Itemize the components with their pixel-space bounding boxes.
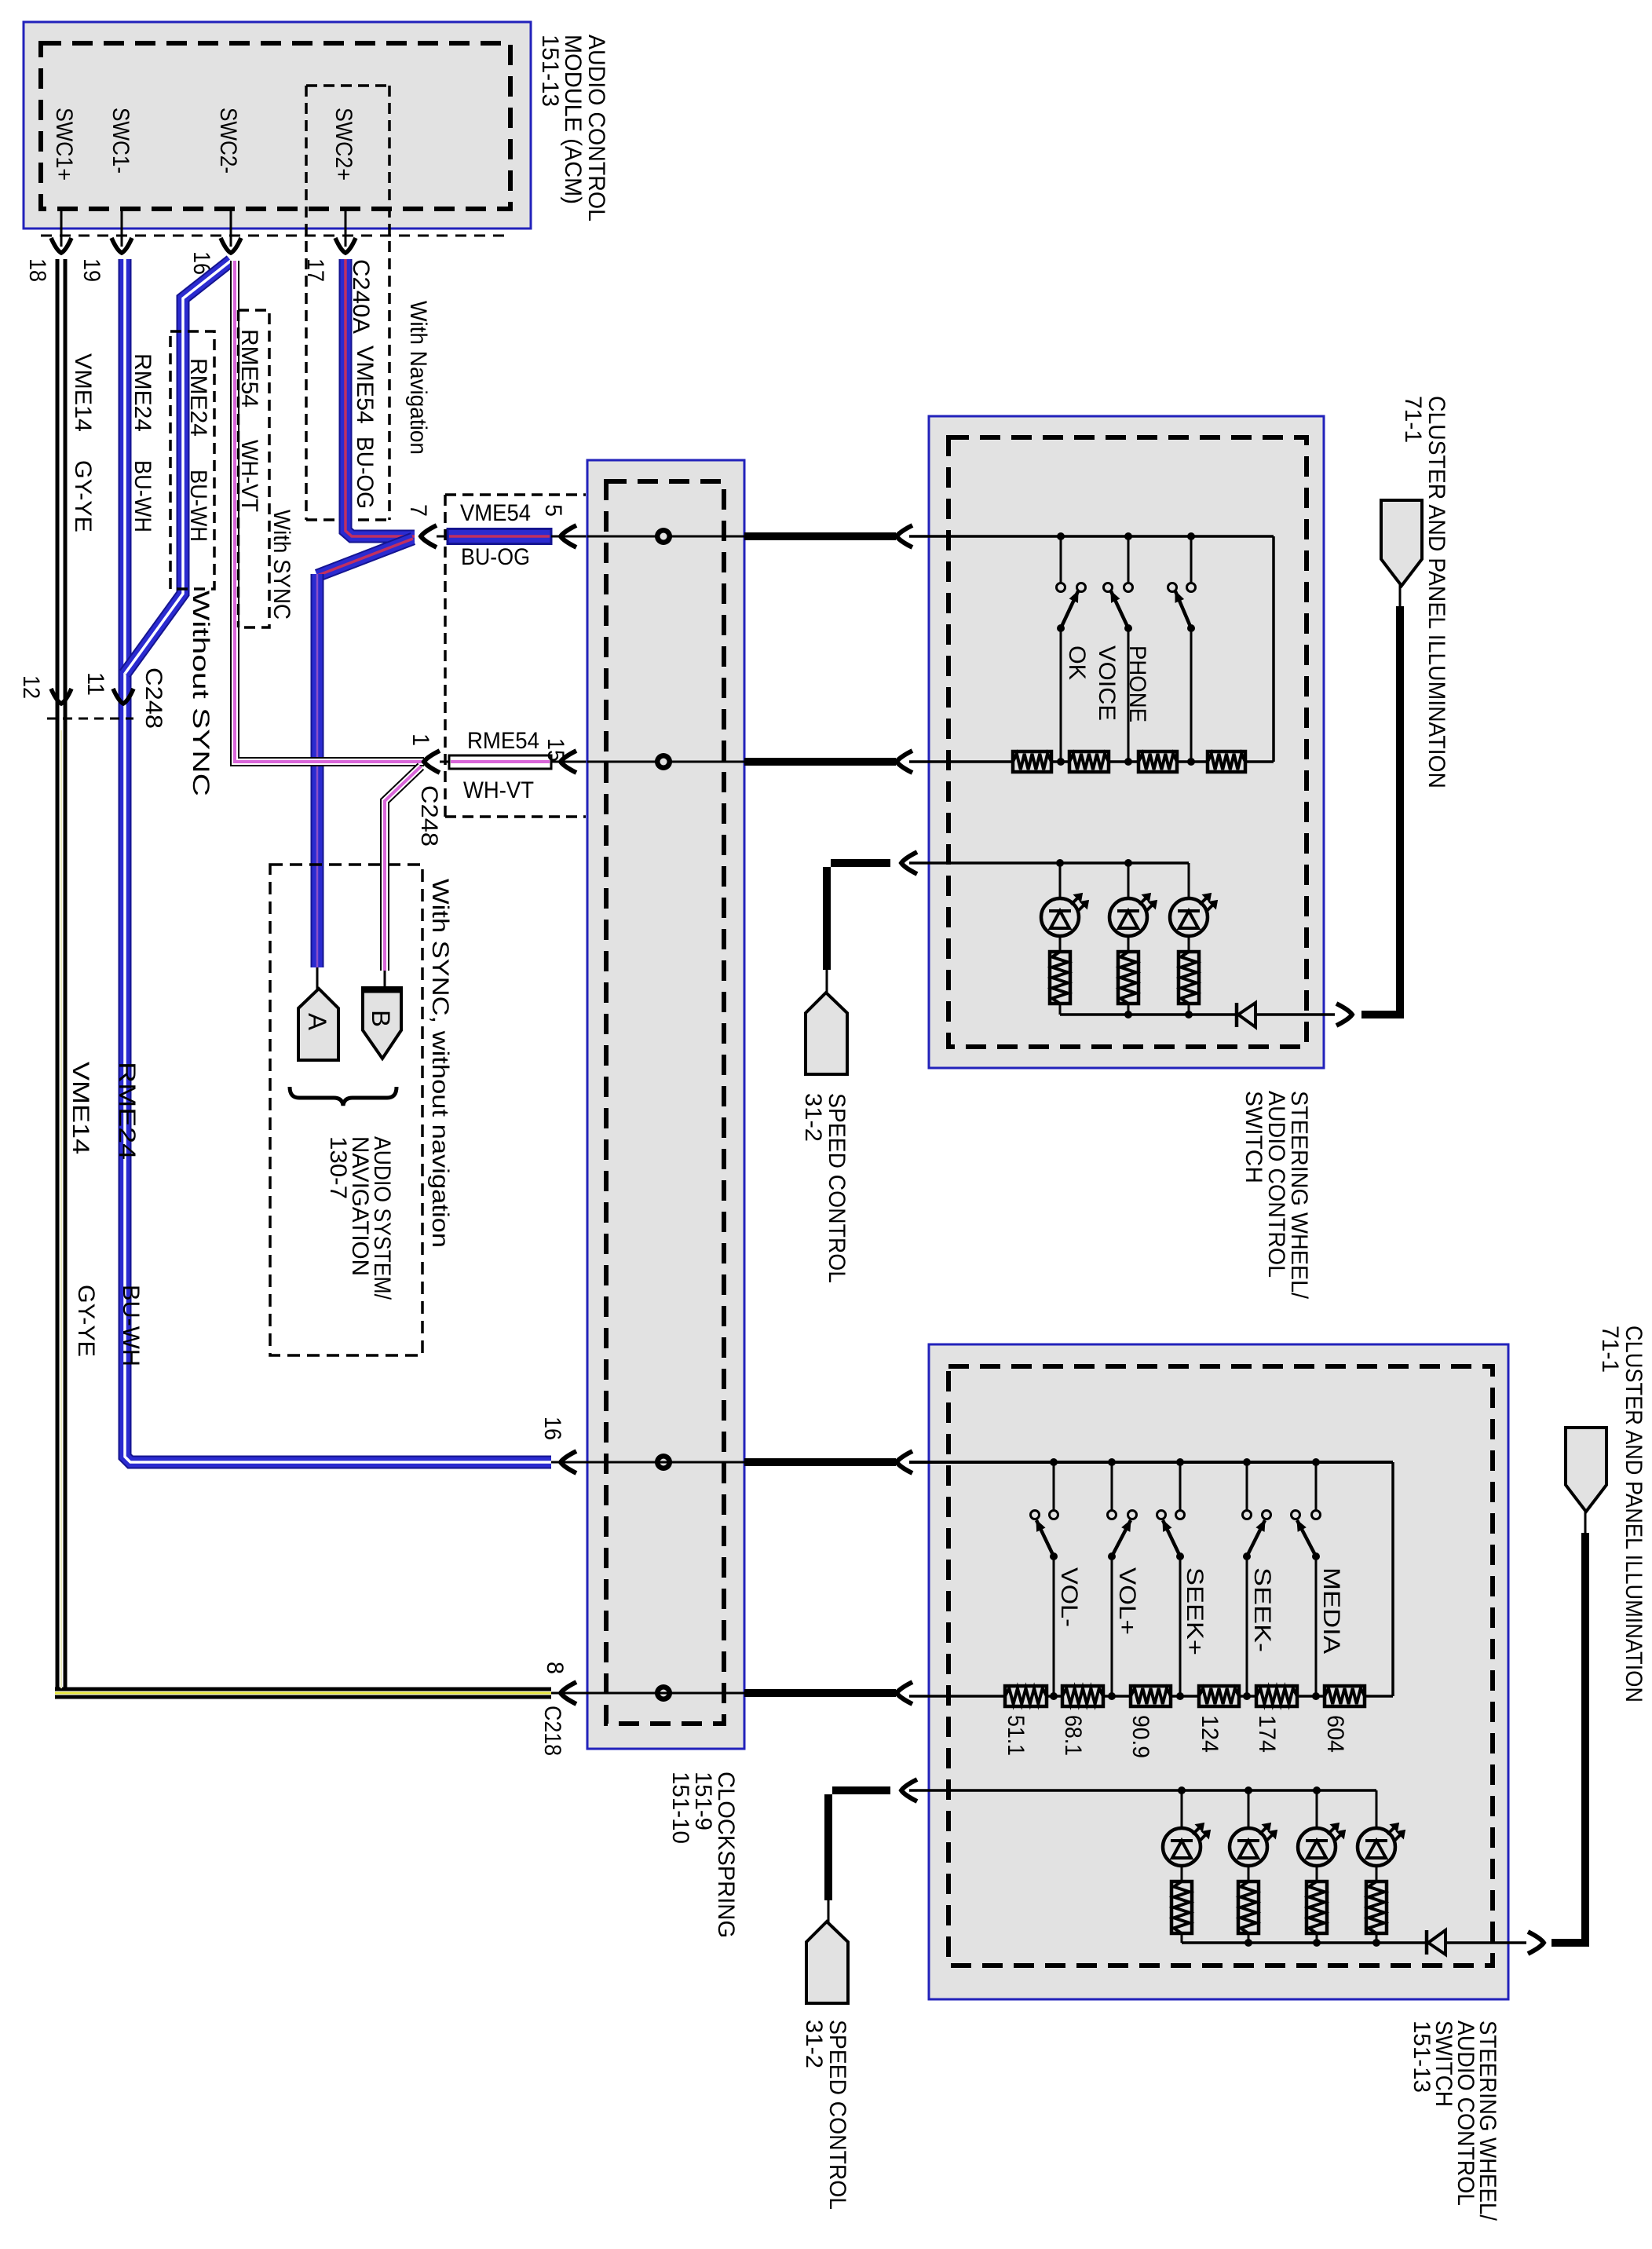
- resistor LED R4 bottom box: [1366, 1881, 1387, 1933]
- svg-text:OK: OK: [1064, 645, 1090, 680]
- connector A (to audio system): [298, 989, 338, 1060]
- wire pin5 inside clockspring: [587, 536, 744, 538]
- wire lead to connector B: [384, 971, 386, 991]
- wire thick to cluster illumination (top): [1361, 1011, 1404, 1018]
- svg-text:BU-WH: BU-WH: [130, 460, 155, 532]
- dashed option box With Navigation (around SWC2+): [306, 84, 389, 87]
- svg-text:CLUSTER AND PANEL ILLUMINATION: CLUSTER AND PANEL ILLUMINATION: [1621, 1326, 1647, 1702]
- svg-text:151-13: 151-13: [1409, 2020, 1435, 2093]
- wire stub junction7 to VME54 bar: [437, 536, 449, 538]
- wire RME24 BU-WH from pin 19 through C248 pin 11 to clockspring pin 16: [125, 259, 551, 1462]
- svg-text:GY-YE: GY-YE: [73, 1285, 99, 1357]
- svg-text:31-2: 31-2: [801, 2020, 827, 2068]
- svg-text:SWC1+: SWC1+: [51, 108, 77, 181]
- ACM pin lead x=440: [345, 209, 347, 247]
- wire pin8 into clockspring: [551, 1692, 744, 1695]
- switch PHONE: [1190, 536, 1193, 583]
- resistor R3 top box: [1138, 751, 1177, 772]
- dashed option box Without SYNC: [170, 331, 214, 589]
- LED D3 bottom box: [1316, 1790, 1318, 1828]
- switch VOL-: [1053, 1462, 1055, 1510]
- wire top box supply rail y=683: [909, 535, 1274, 538]
- dashed With SYNC box left edge over wire: [237, 310, 240, 627]
- wire pin16 into clockspring: [551, 1461, 744, 1464]
- switch SEEK-: [1246, 1462, 1248, 1510]
- svg-text:12: 12: [18, 675, 44, 699]
- svg-text:C248: C248: [416, 785, 442, 847]
- dashed region bars With Navigation: [444, 495, 447, 817]
- svg-text:174: 174: [1254, 1715, 1280, 1753]
- connector CLUSTER AND PANEL ILLUMINATION (bottom) pentagon: [1566, 1428, 1606, 1512]
- connector SPEED CONTROL (bottom) pentagon: [806, 1922, 848, 2003]
- svg-text:RME24: RME24: [130, 353, 155, 432]
- LED D3 top box: [1188, 863, 1190, 898]
- resistor 604: [1325, 1686, 1365, 1706]
- svg-text:MEDIA: MEDIA: [1318, 1567, 1344, 1654]
- resistor LED R3 bottom box: [1307, 1881, 1327, 1933]
- wire stub junction1 to RME54 bar: [440, 761, 451, 763]
- arrow C248 pin 11: [113, 689, 133, 704]
- svg-text:VME54: VME54: [460, 500, 531, 526]
- ACM inner dashed connector boundary: [41, 43, 510, 209]
- wire LED supply rail bottom box y=2280: [909, 1789, 1376, 1792]
- svg-text:11: 11: [82, 672, 108, 696]
- svg-text:51.1: 51.1: [1003, 1715, 1029, 1756]
- resistor 51.1: [1005, 1686, 1047, 1706]
- wire LED supply rail top box y=1099: [909, 861, 1189, 865]
- arrow junction 1: [424, 751, 440, 773]
- svg-text:71-1: 71-1: [1400, 396, 1426, 443]
- ACM pin lead x=78: [60, 209, 63, 247]
- resistor LED R1: [1050, 952, 1070, 1004]
- arrow junction 7: [421, 525, 437, 547]
- wire thick clockspring right y=683: [744, 532, 896, 540]
- module STEERING WHEEL/AUDIO CONTROL SWITCH (bottom) box: [929, 1344, 1508, 1999]
- switch SEEK+: [1179, 1462, 1182, 1510]
- svg-text:124: 124: [1197, 1715, 1223, 1753]
- arrow switch box pin y=683: [897, 525, 912, 547]
- resistor 68.1: [1062, 1686, 1103, 1706]
- arrow ACM pin 18: [51, 238, 71, 253]
- resistor LED R3: [1179, 952, 1199, 1004]
- module CLOCKSPRING box: [587, 460, 744, 1749]
- wire VME54 BU-OG from pin 17 to junction 7: [345, 259, 415, 536]
- clockspring inner dashed box: [606, 481, 724, 1724]
- svg-text:C248: C248: [141, 667, 166, 729]
- resistor LED R1 bottom box: [1171, 1881, 1192, 1933]
- svg-text:SWC2-: SWC2-: [215, 108, 241, 174]
- svg-text:GY-YE: GY-YE: [70, 460, 96, 532]
- svg-text:16: 16: [539, 1417, 565, 1440]
- svg-text:18: 18: [24, 258, 50, 282]
- wire speed control top box y=1099 exit: [901, 852, 917, 874]
- wire pin5 into clockspring: [551, 536, 744, 538]
- arrow out illumination top box: [1336, 1004, 1352, 1026]
- wire top box resistor rail y=970: [909, 760, 1013, 763]
- wire LED return rail top box y=1292: [1060, 1013, 1235, 1016]
- wire WH-VT diagonal to connector B: [385, 766, 421, 971]
- svg-text:604: 604: [1322, 1715, 1348, 1753]
- module STEERING WHEEL/AUDIO CONTROL SWITCH (top) box: [929, 416, 1324, 1068]
- svg-text:With Navigation: With Navigation: [405, 301, 431, 455]
- svg-text:RME24: RME24: [185, 358, 211, 437]
- arrow switch box pin y=2156: [897, 1682, 912, 1704]
- clockspring contact ring pin 16: [655, 1454, 672, 1471]
- svg-text:With SYNC: With SYNC: [269, 510, 294, 620]
- wire LED return rail bottom box y=2474: [1182, 1941, 1425, 1944]
- svg-text:SWITCH: SWITCH: [1241, 1091, 1266, 1183]
- svg-text:71-1: 71-1: [1597, 1326, 1623, 1373]
- arrow C248 pin 12: [51, 689, 71, 704]
- svg-text:SWC2+: SWC2+: [331, 108, 356, 181]
- clockspring contact ring pin 5: [655, 528, 672, 545]
- clockspring contact ring pin 15: [655, 753, 672, 770]
- svg-text:WH-VT: WH-VT: [463, 777, 534, 803]
- node junction on supply rail x=1437: [1124, 532, 1132, 540]
- svg-text:31-2: 31-2: [800, 1093, 826, 1142]
- wire bar VME54 BU-OG at clockspring pin 5: [448, 529, 551, 544]
- dashed option box With SYNC without navigation: [270, 865, 422, 1355]
- resistor LED R2 bottom box: [1238, 1881, 1259, 1933]
- arrow out illumination bottom box: [1528, 1932, 1544, 1954]
- resistor 90.9: [1131, 1686, 1171, 1706]
- wire bottom box resistor rail y=2160: [909, 1695, 1005, 1698]
- top switch box inner dashed: [948, 437, 1307, 1047]
- wire thick to cluster illumination (bottom): [1551, 1939, 1589, 1947]
- clockspring contact ring pin 8: [655, 1684, 672, 1702]
- node junction on bottom supply rail x=1342: [1050, 1458, 1058, 1466]
- node junction on bottom supply rail x=1503: [1176, 1458, 1184, 1466]
- wire thick clockspring right y=2156: [744, 1689, 896, 1697]
- wire VME14 GY-YE from pin 18 (vertical + bottom horizontal to clockspring pin 8): [56, 259, 68, 1688]
- wire pin15 inside clockspring: [587, 761, 744, 763]
- resistor 124: [1199, 1686, 1239, 1706]
- svg-text:151-13: 151-13: [537, 35, 563, 107]
- arrow ACM pin 17: [335, 238, 356, 253]
- svg-text:130-7: 130-7: [325, 1136, 351, 1199]
- svg-text:VME14: VME14: [68, 1062, 93, 1154]
- connector CLUSTER AND PANEL ILLUMINATION (top) pentagon: [1381, 500, 1422, 586]
- arrow switch box pin y=1862: [897, 1451, 912, 1473]
- svg-text:VME14: VME14: [70, 353, 96, 432]
- wire blue vertical to connector A: [311, 574, 324, 967]
- svg-text:BU-OG: BU-OG: [352, 437, 378, 509]
- arrow clockspring pin 5: [561, 525, 576, 547]
- LED D4 bottom box: [1376, 1790, 1378, 1828]
- connector C248 pins 11/12 dashed line: [47, 718, 133, 720]
- wire speed control bottom box y=2280 exit: [901, 1779, 917, 1801]
- svg-text:8: 8: [542, 1662, 568, 1674]
- LED D1 bottom box: [1181, 1790, 1183, 1828]
- LED D2 top box: [1128, 863, 1130, 898]
- svg-text:SEEK-: SEEK-: [1249, 1567, 1275, 1652]
- svg-text:VME54: VME54: [352, 346, 378, 424]
- svg-text:CLUSTER AND PANEL ILLUMINATION: CLUSTER AND PANEL ILLUMINATION: [1424, 396, 1449, 788]
- svg-text:Without SYNC: Without SYNC: [188, 591, 214, 796]
- svg-text:RME54: RME54: [467, 728, 539, 754]
- svg-text:7: 7: [405, 504, 431, 517]
- wire thick clockspring right y=1862: [744, 1458, 896, 1466]
- dashed option box With SYNC (around RME54 WH-VT label): [238, 310, 269, 627]
- arrow clockspring pin 16: [561, 1451, 576, 1473]
- svg-text:5: 5: [540, 504, 566, 517]
- wire bar RME54 WH-VT at clockspring pin 15: [449, 755, 551, 769]
- ACM pin lead x=155: [121, 209, 123, 247]
- module ACM box (AUDIO CONTROL MODULE): [24, 22, 531, 229]
- svg-text:BU-OG: BU-OG: [461, 544, 530, 570]
- svg-text:B: B: [367, 1010, 395, 1027]
- arrow switch box pin y=970: [897, 751, 912, 773]
- svg-text:C218: C218: [539, 1706, 565, 1756]
- svg-text:SPEED CONTROL: SPEED CONTROL: [824, 1093, 850, 1283]
- wire lead to connector A: [316, 967, 319, 991]
- switch VOICE: [1128, 536, 1130, 583]
- switch VOL+: [1111, 1462, 1113, 1510]
- node junction on supply rail x=1517: [1187, 532, 1195, 540]
- LED D2 bottom box: [1248, 1790, 1250, 1828]
- resistor 174: [1256, 1686, 1297, 1706]
- resistor R4 top box: [1208, 751, 1245, 772]
- wire RME24 BU-WH from pin 16 (diagonal joining pin 11): [125, 261, 231, 674]
- arrow ACM pin 16: [221, 238, 241, 253]
- svg-text:VOICE: VOICE: [1094, 645, 1120, 721]
- svg-text:17: 17: [302, 258, 328, 282]
- arrow clockspring pin 8: [561, 1682, 576, 1704]
- svg-text:BU-WH: BU-WH: [118, 1285, 144, 1366]
- node junction on bottom supply rail x=1676: [1312, 1458, 1320, 1466]
- svg-text:VOL+: VOL+: [1114, 1567, 1140, 1635]
- node junction on supply rail x=1351: [1057, 532, 1065, 540]
- switch MEDIA: [1315, 1462, 1318, 1510]
- ACM pin lead x=294: [230, 209, 232, 247]
- svg-text:AUDIO CONTROL: AUDIO CONTROL: [583, 35, 609, 221]
- arrow clockspring pin 15: [561, 751, 576, 773]
- node junction on bottom supply rail x=1416: [1108, 1458, 1116, 1466]
- brace under connectors A and B: [290, 1087, 397, 1106]
- connector B (to audio system): [363, 988, 401, 1059]
- wire bottom box supply rail y=1862: [909, 1461, 1393, 1464]
- connector SPEED CONTROL (top) pentagon: [806, 993, 847, 1074]
- svg-text:151-10: 151-10: [667, 1772, 693, 1844]
- svg-text:PHONE: PHONE: [1124, 645, 1150, 722]
- svg-text:RME24: RME24: [114, 1062, 140, 1160]
- wire RME54 WH-VT from pin 16 down to junction C248 pin 1: [235, 261, 424, 762]
- wire pin15 into clockspring: [551, 761, 744, 763]
- svg-text:19: 19: [79, 258, 104, 282]
- diode bottom box: [1425, 1930, 1429, 1955]
- svg-text:90.9: 90.9: [1128, 1715, 1153, 1758]
- svg-text:SWC1-: SWC1-: [108, 108, 133, 174]
- svg-text:SPEED CONTROL: SPEED CONTROL: [824, 2020, 850, 2210]
- resistor R1 top box: [1013, 751, 1051, 772]
- svg-text:BU-WH: BU-WH: [185, 470, 211, 542]
- svg-text:RME54: RME54: [236, 329, 262, 408]
- svg-text:With SYNC, without navigation: With SYNC, without navigation: [427, 879, 453, 1248]
- wire bottom box right-side vertical: [1391, 1462, 1394, 1696]
- wire VME54 BU-OG diagonal branch to connector A (With SYNC path): [317, 539, 413, 576]
- LED D1 top box: [1059, 863, 1062, 898]
- resistor R2 top box: [1069, 751, 1109, 772]
- wire thick clockspring right y=970: [744, 758, 896, 766]
- bottom switch box inner dashed: [948, 1366, 1493, 1966]
- wire top box right-side vertical: [1272, 536, 1275, 762]
- switch OK: [1060, 536, 1062, 583]
- svg-text:WH-VT: WH-VT: [236, 440, 262, 512]
- svg-text:A: A: [303, 1013, 331, 1031]
- svg-text:68.1: 68.1: [1060, 1715, 1086, 1756]
- resistor LED R2: [1118, 952, 1138, 1004]
- ACM connector dashed line C240A: [41, 235, 510, 237]
- svg-text:SEEK+: SEEK+: [1182, 1567, 1208, 1655]
- svg-text:1: 1: [408, 733, 433, 746]
- node junction on bottom supply rail x=1588: [1243, 1458, 1251, 1466]
- diode top box: [1235, 1003, 1239, 1027]
- arrow ACM pin 19: [111, 238, 132, 253]
- svg-text:VOL-: VOL-: [1056, 1567, 1082, 1627]
